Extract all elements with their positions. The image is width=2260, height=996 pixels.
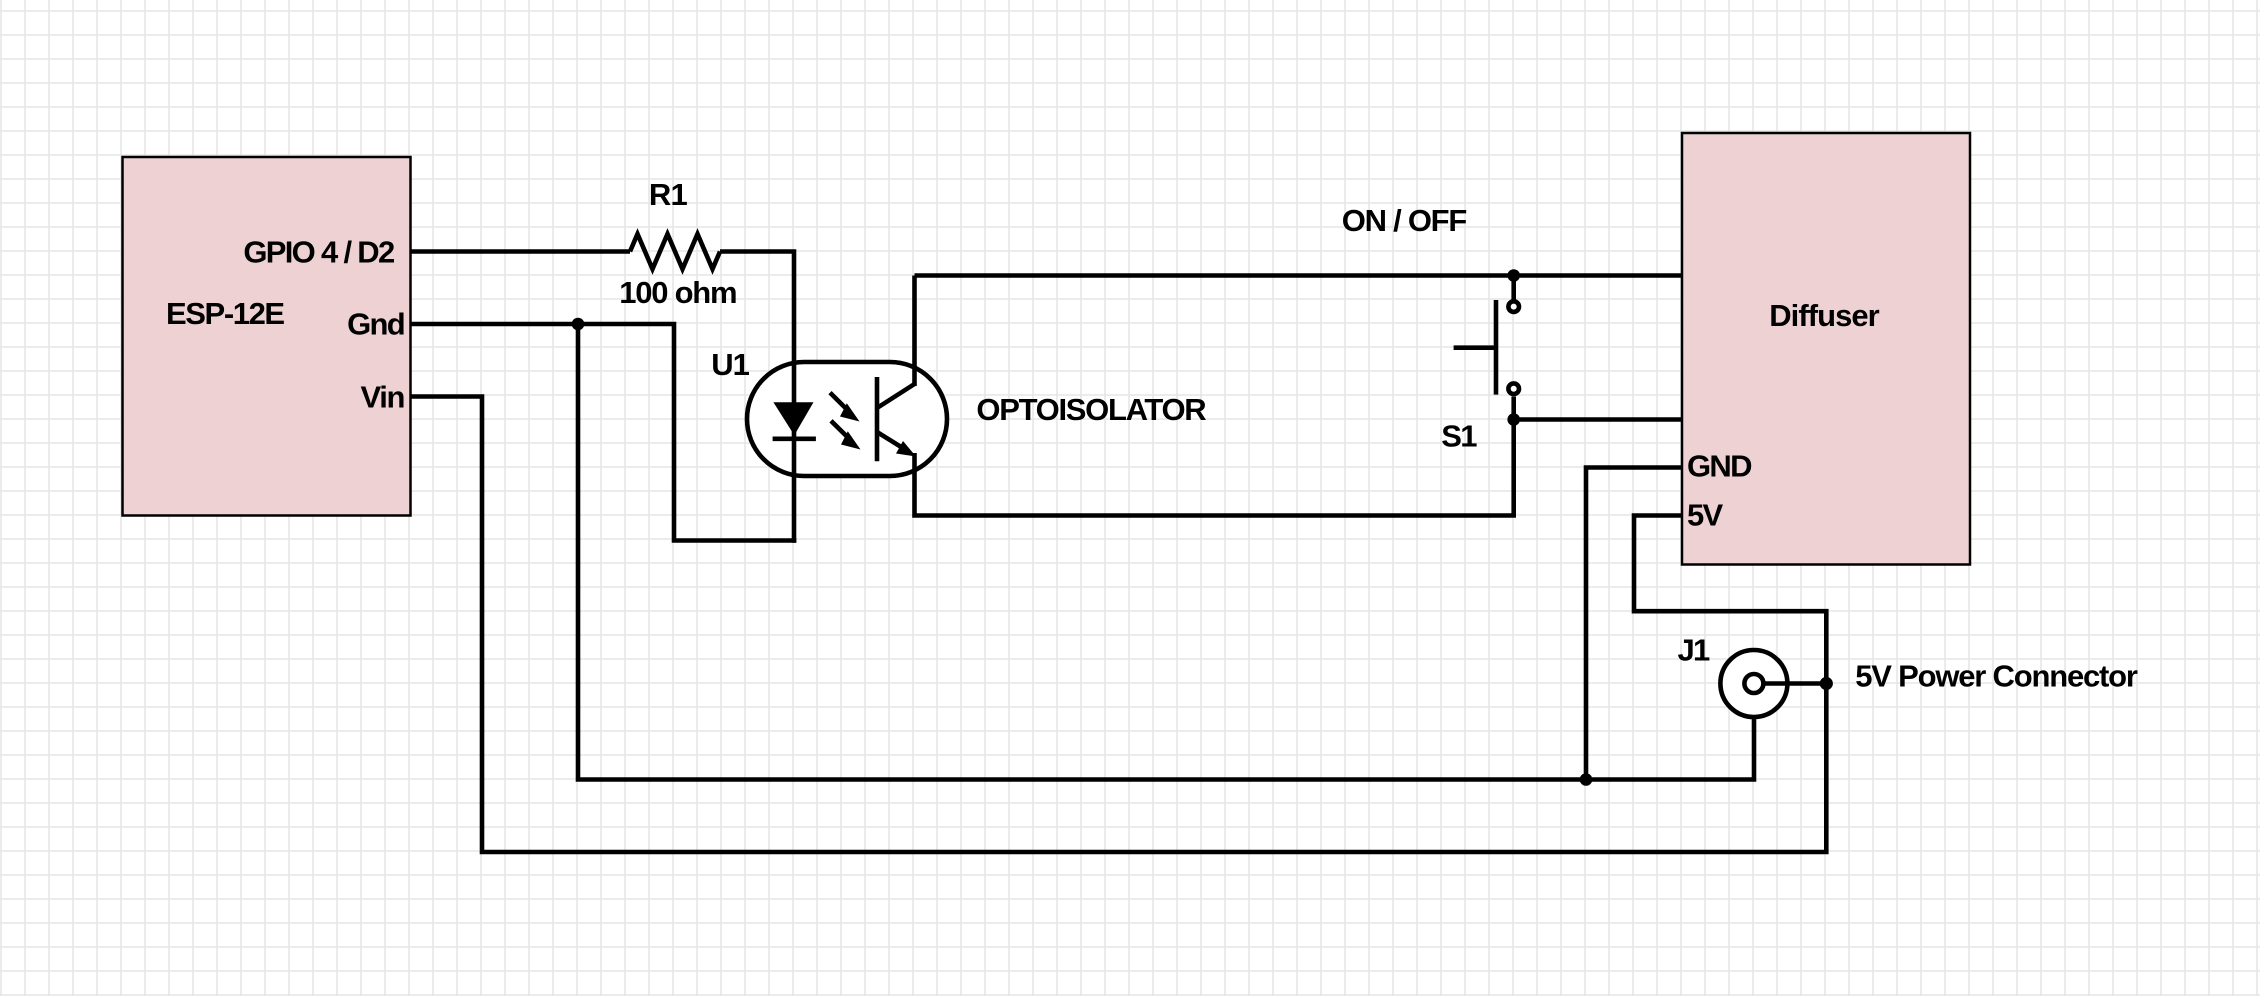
svg-text:ESP-12E: ESP-12E: [166, 296, 284, 331]
Diffuser box: [1682, 133, 1970, 565]
wire Gnd rail down and across to J1 sleeve: [578, 324, 1754, 780]
node 5V junction: [1820, 677, 1833, 690]
wire collector up: [912, 276, 917, 387]
switch S1 actuator bar: [1494, 300, 1499, 395]
switch S1 top stub: [1511, 276, 1516, 302]
optoisolator U1 body: [747, 362, 947, 476]
light arrow 1: [830, 393, 860, 422]
switch S1 actuator handle: [1454, 345, 1496, 350]
wire R1 to U1 LED anode: [720, 252, 794, 543]
svg-text:5V Power Connector: 5V Power Connector: [1855, 658, 2138, 693]
svg-text:ON / OFF: ON / OFF: [1342, 203, 1467, 238]
ESP-12E box: [123, 157, 411, 516]
node bottom junction at S1: [1507, 413, 1520, 426]
wire Vin to 5V net (bottom run, up right side, to Diffuser 5V): [411, 397, 1827, 853]
wire emitter down then right to S1 bottom node: [915, 420, 1514, 516]
transistor (U1 photototransistor) base bar: [875, 377, 880, 461]
node top junction at S1: [1507, 269, 1520, 282]
wire S1 node to Diffuser pin: [1514, 417, 1682, 422]
LED cathode bar: [773, 436, 816, 441]
svg-text:100 ohm: 100 ohm: [619, 275, 736, 310]
svg-text:S1: S1: [1441, 419, 1477, 454]
svg-text:Gnd: Gnd: [347, 307, 404, 342]
svg-text:U1: U1: [711, 347, 749, 382]
light arrow 2: [831, 421, 861, 450]
switch S1 bottom stub: [1511, 397, 1516, 420]
node GND junction on rail: [1580, 773, 1593, 786]
switch S1 bottom contact circle: [1508, 383, 1519, 394]
connector J1 center pin: [1744, 674, 1763, 693]
svg-text:GND: GND: [1687, 449, 1752, 484]
switch S1 top contact circle: [1508, 301, 1519, 312]
svg-text:Vin: Vin: [361, 380, 405, 415]
svg-text:GPIO 4 / D2: GPIO 4 / D2: [243, 235, 394, 270]
node Gnd junction: [572, 318, 585, 331]
resistor R1: [630, 234, 720, 269]
svg-text:J1: J1: [1677, 633, 1710, 668]
transistor emitter diagonal with arrow: [877, 432, 916, 457]
wire junction to LED cathode: [578, 324, 796, 541]
wire ON/OFF top run to Diffuser: [915, 273, 1683, 278]
svg-text:Diffuser: Diffuser: [1769, 298, 1879, 333]
svg-text:R1: R1: [649, 177, 688, 212]
svg-text:5V: 5V: [1687, 497, 1724, 532]
LED triangle (anode): [773, 402, 813, 435]
svg-text:OPTOISOLATOR: OPTOISOLATOR: [976, 392, 1206, 427]
wire J1 center pin to 5V net: [1766, 681, 1827, 686]
transistor collector diagonal: [877, 384, 915, 408]
wire Gnd pin to junction: [411, 322, 579, 327]
connector J1 outer barrel: [1720, 650, 1787, 717]
wire Diffuser GND pin: [1586, 468, 1682, 780]
wire GPIO4 to R1: [411, 249, 631, 254]
